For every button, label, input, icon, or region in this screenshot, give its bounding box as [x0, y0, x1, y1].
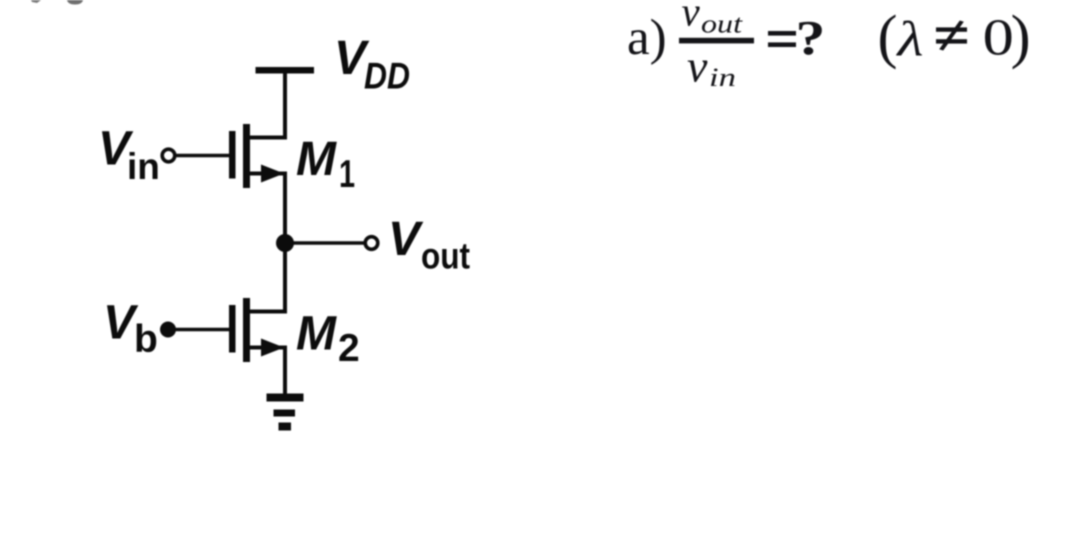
svg-text:in: in [127, 146, 160, 187]
svg-text:(: ( [878, 4, 898, 70]
transistor M2 channel bar [243, 298, 250, 362]
svg-text:1: 1 [339, 153, 355, 196]
transistor M2 (NMOS) gate bar [229, 305, 236, 353]
M1 source wire with arrow down to output node [248, 174, 285, 246]
label Vin [98, 123, 160, 188]
svg-text:2: 2 [338, 327, 360, 370]
svg-text:λ: λ [895, 10, 923, 66]
wire: Vin terminal to M1 gate [177, 154, 230, 158]
svg-text:out: out [421, 236, 470, 277]
node: output junction dot [276, 234, 294, 252]
stray glyph fragment (top-left, cut off) [31, 0, 41, 3]
fraction bar [679, 38, 754, 44]
svg-text:V: V [388, 213, 424, 266]
label M2 [296, 308, 360, 371]
stray glyph fragment 2 (top edge, cut off) [67, 0, 83, 5]
svg-text:in: in [709, 63, 736, 92]
VDD power symbol (T-bar) [256, 67, 315, 74]
M2 source wire with corner down to ground [248, 348, 285, 396]
svg-text:DD: DD [364, 56, 410, 97]
label Vb [103, 297, 158, 362]
ground symbol [267, 394, 304, 431]
svg-text:M: M [296, 308, 337, 361]
bias terminal (filled dot) at Vb [160, 322, 176, 338]
svg-text:v: v [682, 0, 701, 35]
svg-text:a): a) [627, 10, 667, 66]
wire: VDD bar down to M1 drain [248, 73, 285, 138]
wire: Vb dot to M2 gate [168, 328, 229, 332]
input terminal (open circle) at Vin [162, 149, 175, 162]
transistor M1 (NMOS) gate bar [229, 131, 236, 179]
wire: junction to Vout terminal [285, 241, 364, 245]
wire: junction down to M2 drain [248, 241, 285, 312]
svg-text:?: ? [796, 10, 826, 65]
transistor M1 channel bar [243, 124, 250, 188]
label M1 [296, 133, 355, 196]
svg-text:): ) [1011, 4, 1031, 70]
output terminal (open circle) at Vout [365, 237, 378, 250]
question mark [796, 10, 826, 65]
equation: a) vout/vin = ? [627, 0, 1031, 92]
svg-text:out: out [701, 10, 743, 39]
not-equal sign [936, 27, 967, 31]
M2 source arrow [261, 339, 284, 357]
equals sign [768, 31, 796, 36]
svg-text:v: v [687, 41, 708, 92]
M1 source arrow [261, 165, 284, 183]
svg-text:0: 0 [983, 9, 1014, 66]
label VDD [334, 32, 410, 97]
svg-text:M: M [296, 133, 337, 186]
label Vout [388, 213, 470, 277]
svg-text:b: b [134, 318, 158, 361]
